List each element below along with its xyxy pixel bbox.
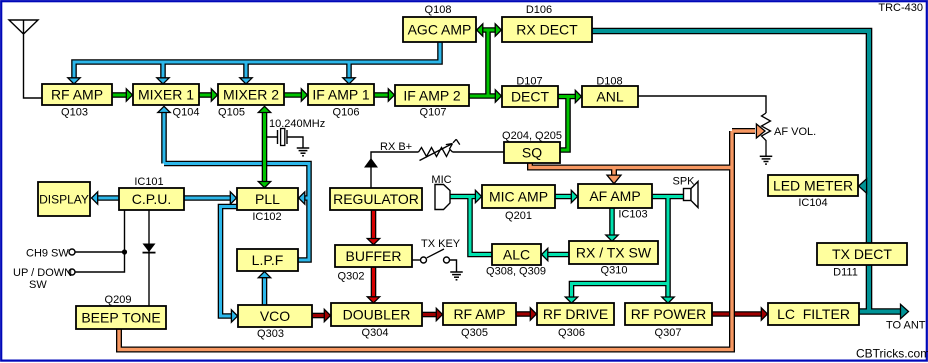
wire C.P.U. to DISPLAY (blue) — [92, 192, 120, 204]
svg-text:AF VOL.: AF VOL. — [774, 126, 816, 138]
svg-text:Q305: Q305 — [461, 327, 488, 339]
svg-text:10.240MHz: 10.240MHz — [269, 118, 325, 130]
potentiometer AF VOL — [762, 113, 771, 156]
block RX / TX SW — [569, 241, 658, 264]
block RF AMP — [42, 84, 112, 105]
block RF DRIVE — [537, 303, 614, 325]
svg-text:CH9 SW: CH9 SW — [26, 248, 69, 260]
svg-text:Q204, Q205: Q204, Q205 — [502, 130, 562, 142]
svg-text:D108: D108 — [596, 76, 622, 88]
wire AF AMP to RX/TX SW (turquoise) — [606, 208, 618, 241]
wire RX/TX SW to ALC (turquoise) — [542, 248, 569, 260]
svg-text:BEEP TONE: BEEP TONE — [81, 310, 160, 326]
wire C.P.U. to BEEP TONE — [148, 210, 150, 306]
switch TX KEY — [412, 249, 457, 272]
block DOUBLER — [331, 303, 422, 326]
block RF AMP Q305 — [443, 303, 516, 325]
wire MIXER 2 to IF AMP 1 (green) — [284, 89, 308, 101]
wire PLL to VCO (blue) — [221, 207, 238, 323]
svg-text:Q106: Q106 — [333, 107, 360, 119]
svg-text:AGC AMP: AGC AMP — [408, 22, 472, 38]
svg-text:Q302: Q302 — [338, 271, 365, 283]
svg-text:RX DECT: RX DECT — [516, 22, 578, 38]
block AF AMP — [578, 184, 652, 208]
block RF POWER — [625, 303, 712, 325]
svg-text:RF AMP: RF AMP — [453, 306, 505, 322]
wire SQ audio to AF AMP / AF VOL / BEEP TONE (orange) — [119, 124, 765, 350]
block DECT — [502, 86, 558, 107]
block LED METER — [768, 175, 858, 196]
block IF AMP 2 — [395, 85, 469, 106]
wire REGULATOR to BUFFER (red) — [367, 210, 379, 245]
svg-text:SQ: SQ — [522, 145, 542, 161]
svg-text:LC FILTER: LC FILTER — [777, 306, 850, 322]
wire C.P.U. to PLL (blue) — [184, 192, 237, 204]
wire MIXER 2 to PLL (green, both directions) — [258, 106, 270, 187]
svg-text:REGULATOR: REGULATOR — [333, 191, 419, 207]
RX B+ arrow (up) — [364, 158, 378, 168]
svg-text:Q304: Q304 — [362, 327, 389, 339]
svg-text:LED METER: LED METER — [773, 178, 853, 194]
svg-text:Q104: Q104 — [173, 107, 200, 119]
wire VCO/LO net to MIXER 1 and PLL/L.P.F (blue) — [158, 106, 309, 260]
block AGC AMP — [403, 17, 476, 42]
svg-text:IC103: IC103 — [618, 209, 647, 221]
svg-text:ANL: ANL — [596, 89, 623, 105]
svg-text:RF DRIVE: RF DRIVE — [543, 306, 608, 322]
block RX DECT — [502, 17, 592, 42]
speaker SPK — [684, 182, 699, 208]
block ANL — [582, 86, 638, 107]
wire C.P.U. to CH9/UP-DOWN switches — [75, 210, 125, 272]
svg-text:Q303: Q303 — [257, 328, 284, 340]
block VCO — [238, 305, 312, 327]
svg-text:Q201: Q201 — [505, 210, 532, 222]
microphone MIC — [435, 185, 450, 210]
wire MIC AMP to AF AMP (turquoise) — [555, 190, 578, 202]
wire RF AMP Q305 to RF DRIVE (dark red) — [516, 308, 537, 320]
block SQ — [504, 142, 560, 163]
wire RF AMP to MIXER 1 (green) — [112, 89, 133, 101]
svg-text:VCO: VCO — [260, 308, 290, 324]
svg-text:MIC AMP: MIC AMP — [489, 189, 548, 205]
block BEEP TONE — [76, 306, 166, 329]
svg-text:IC101: IC101 — [134, 176, 163, 188]
switch UP/DOWN SW terminal — [69, 269, 75, 275]
block BUFFER — [335, 245, 412, 267]
switch CH9 SW terminal — [69, 249, 75, 255]
svg-text:D107: D107 — [516, 76, 542, 88]
ground at AF VOL — [760, 156, 773, 164]
wire AF AMP to SPK and RF DRIVE / RF POWER (turquoise) — [565, 197, 684, 304]
block MIC AMP — [482, 185, 555, 208]
svg-text:RX B+: RX B+ — [380, 141, 412, 153]
svg-text:PLL: PLL — [255, 191, 280, 207]
svg-text:DOUBLER: DOUBLER — [343, 307, 411, 323]
svg-text:IF AMP 1: IF AMP 1 — [312, 87, 370, 103]
svg-text:TRC-430: TRC-430 — [878, 2, 923, 14]
svg-text:Q103: Q103 — [61, 107, 88, 119]
block REGULATOR — [330, 188, 422, 210]
wire DECT to ANL with branch to SQ (green) — [558, 90, 582, 150]
svg-text:MIXER 2: MIXER 2 — [223, 87, 279, 103]
block MIXER 1 — [133, 84, 199, 105]
svg-text:SPK: SPK — [672, 176, 695, 188]
wire AGC line (blue) from AGC AMP to RF AMP/MIXER1/MIXER2/IF AMP1 — [68, 42, 440, 84]
svg-text:RF AMP: RF AMP — [51, 87, 103, 103]
svg-text:MIC: MIC — [431, 174, 451, 186]
wire IF AMP 2 to DECT with branch to AGC AMP / RX DECT (green) — [469, 24, 502, 102]
block IF AMP 1 — [308, 84, 374, 105]
wire RF POWER to LC FILTER (dark red) — [712, 308, 768, 320]
svg-text:Q310: Q310 — [601, 265, 628, 277]
svg-text:TO ANT: TO ANT — [886, 320, 926, 332]
svg-text:C.P.U.: C.P.U. — [132, 191, 171, 207]
ground at TX KEY — [450, 272, 463, 280]
svg-text:IC104: IC104 — [798, 197, 827, 209]
svg-text:IC102: IC102 — [252, 211, 281, 223]
wire BUFFER to DOUBLER (red) — [367, 267, 379, 303]
svg-text:DISPLAY: DISPLAY — [39, 192, 89, 206]
svg-text:TX DECT: TX DECT — [832, 246, 892, 262]
svg-text:D106: D106 — [526, 4, 552, 16]
svg-text:DECT: DECT — [511, 89, 550, 105]
wire IF AMP 1 to IF AMP 2 (green) — [374, 89, 395, 101]
block L.P.F — [237, 249, 298, 271]
wire RX DECT to antenna line / TX DECT / TO ANT (teal) — [592, 31, 909, 319]
svg-text:SW: SW — [29, 279, 47, 291]
block MIXER 2 — [218, 84, 284, 105]
svg-text:Q307: Q307 — [655, 327, 682, 339]
block DISPLAY — [38, 182, 90, 216]
block C.P.U. — [119, 188, 184, 210]
svg-text:IF AMP 2: IF AMP 2 — [403, 88, 461, 104]
svg-text:Q209: Q209 — [105, 294, 132, 306]
diode on C.P.U.-BEEP TONE wire — [143, 244, 156, 253]
wire VCO to L.P.F (blue) — [258, 272, 270, 306]
svg-text:TX KEY: TX KEY — [421, 238, 461, 250]
svg-text:CBTricks.com: CBTricks.com — [856, 347, 928, 361]
svg-text:Q108: Q108 — [425, 4, 452, 16]
antenna — [9, 20, 42, 98]
svg-text:BUFFER: BUFFER — [346, 248, 402, 264]
wire MIC to MIC AMP with ALC feedback (turquoise) — [450, 190, 492, 254]
ground at crystal — [297, 148, 310, 156]
svg-text:Q308, Q309: Q308, Q309 — [486, 266, 546, 278]
wire DOUBLER to RF AMP Q305 (dark red) — [422, 308, 443, 320]
block TX DECT — [817, 243, 907, 265]
svg-text:Q306: Q306 — [558, 327, 585, 339]
wire ANL to AF VOL — [638, 96, 766, 113]
svg-text:L.P.F: L.P.F — [252, 252, 284, 268]
svg-text:Q107: Q107 — [420, 107, 447, 119]
svg-text:RX / TX SW: RX / TX SW — [576, 245, 652, 261]
wire VCO to DOUBLER (dark red) — [312, 309, 331, 321]
svg-text:Q105: Q105 — [218, 107, 245, 119]
block LC FILTER — [768, 303, 859, 325]
svg-text:AF AMP: AF AMP — [589, 188, 640, 204]
svg-text:RF POWER: RF POWER — [631, 306, 706, 322]
junction dot on switch wire — [122, 249, 127, 254]
wire RX B+ from REGULATOR to SQ — [371, 152, 504, 188]
svg-text:UP / DOWN: UP / DOWN — [13, 267, 72, 279]
svg-text:MIXER 1: MIXER 1 — [138, 87, 194, 103]
variable resistor in RX B+ line — [419, 139, 460, 160]
crystal 10.240MHz — [267, 129, 303, 149]
block PLL — [237, 188, 298, 210]
svg-text:ALC: ALC — [503, 247, 530, 263]
svg-text:D111: D111 — [833, 267, 858, 279]
wire MIXER 1 to MIXER 2 (green) — [199, 89, 218, 101]
block ALC — [492, 244, 541, 265]
